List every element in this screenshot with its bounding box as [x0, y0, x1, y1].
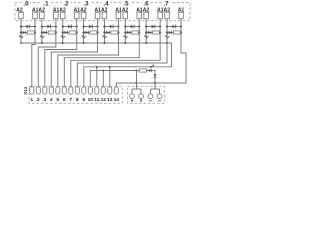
terminal A2 channel 2 [60, 12, 65, 19]
channel 3 A2 rail [83, 19, 85, 43]
power indicator resistor [137, 70, 140, 72]
wire A1 ch6 to pin 7 [71, 19, 160, 87]
drop to pin 11 [96, 67, 98, 87]
connector pin 9 oval [82, 87, 86, 94]
channel 4 diode branch [104, 26, 118, 28]
svg-text:.6: .6 [143, 1, 149, 8]
terminal A2 channel 5 [123, 12, 128, 19]
svg-text:2: 2 [37, 97, 40, 103]
junction bus / A2 ch4 [103, 42, 105, 44]
junction bus / A2 ch1 [41, 42, 43, 44]
channel label .2 [62, 0, 70, 6]
channel 1 diode branch [42, 26, 56, 28]
connector pin 1 oval [30, 87, 34, 94]
terminal A1 channel 2 [74, 12, 79, 19]
channel 4 LED branch [104, 32, 118, 34]
connector pin 2 oval [36, 87, 40, 94]
svg-text:10: 10 [88, 97, 94, 103]
channel 4 A2 rail [103, 19, 105, 43]
connector pin 13 oval [108, 87, 112, 94]
power supply dashed box [128, 86, 165, 103]
junction y83 / left riser [136, 82, 138, 84]
terminal A1 channel 6 [158, 12, 163, 19]
power terminal circle x=132.0 [130, 94, 135, 99]
junction bus / A2 ch3 [83, 42, 85, 44]
channel 5 A2 rail [124, 19, 126, 43]
junction bus / A2 ch2 [62, 42, 64, 44]
wire A1 ch4 to pin 5 [58, 19, 119, 87]
svg-text:.3: .3 [83, 1, 89, 8]
channel 1 A2 rail [41, 19, 43, 43]
svg-text:3: 3 [43, 97, 46, 103]
channel label .4 [102, 0, 110, 6]
channel label .5 [122, 0, 130, 6]
terminal A2 channel 7 [165, 12, 170, 19]
junction bus / A2 ch6 [145, 42, 147, 44]
wire A1 ch7 down right loop to pin 14 [116, 19, 186, 87]
connector pin 11 oval [95, 87, 99, 94]
channel 0 LED branch [21, 32, 35, 34]
junction sub-bus / left riser [136, 70, 138, 72]
terminal A1 channel 0 [33, 12, 38, 19]
svg-text:.0: .0 [23, 1, 29, 8]
left tee riser [136, 71, 138, 90]
wire A1 ch5 to pin 6 [64, 19, 139, 87]
terminal A2 channel 0 [19, 12, 24, 19]
drop to pin 13 [109, 67, 111, 87]
power terminal circle x=141.0 [139, 94, 144, 99]
channel 5 LED branch [125, 32, 139, 34]
connector pin 10 oval [88, 87, 92, 94]
wire A1 ch2 to pin 3 [45, 19, 77, 87]
channel 3 diode branch [84, 26, 98, 28]
connector pin 6 oval [62, 87, 66, 94]
channel label .0 [22, 0, 30, 6]
sub-bus to pins 9,11,13 [84, 67, 172, 87]
channel 7 LED branch [167, 32, 181, 34]
channel label .1 [42, 0, 50, 6]
svg-text:.5: .5 [123, 1, 129, 8]
terminal A2 channel 1 [40, 12, 45, 19]
svg-text:X14: X14 [23, 87, 28, 95]
junction bus / A2 ch5 [124, 42, 126, 44]
svg-text:9: 9 [82, 97, 85, 103]
svg-text:7: 7 [69, 97, 72, 103]
channel 2 A2 rail [62, 19, 64, 43]
wire A1 ch3 to pin 4 [51, 19, 97, 87]
power indicator LED [146, 70, 155, 72]
right tee [154, 83, 156, 89]
power terminal circle x=150.5 [148, 94, 153, 99]
channel 0 diode branch [21, 26, 35, 28]
drop to pin 12 [102, 71, 104, 87]
channel 4 resistor [111, 31, 118, 34]
channel 3 LED branch [84, 32, 98, 34]
power terminal circle x=159.5 [157, 94, 162, 99]
wire A1 ch0 to pin 1 [32, 19, 35, 87]
svg-text:14: 14 [114, 97, 120, 103]
channel 6 resistor [153, 31, 160, 34]
wire A1 ch1 to pin 2 [38, 19, 56, 87]
channel 1 LED branch [42, 32, 56, 34]
svg-text:.1: .1 [43, 1, 49, 8]
channel 2 diode branch [63, 26, 77, 28]
terminal A2 channel 3 [81, 12, 86, 19]
channel 5 diode branch [125, 26, 139, 28]
junction bus / A2 ch7 [166, 42, 168, 44]
junction y83 / right riser [154, 82, 156, 84]
channel 7 diode branch [167, 26, 181, 28]
channel 0 A2 rail [20, 19, 22, 43]
connector pin 7 oval [69, 87, 73, 94]
svg-text:.4: .4 [103, 1, 109, 8]
channel label .7 [162, 0, 170, 6]
svg-text:5: 5 [56, 97, 59, 103]
svg-text:1: 1 [30, 97, 33, 103]
A2 common bus [21, 42, 172, 44]
channel label .6 [142, 0, 150, 6]
channel label .3 [82, 0, 90, 6]
connector X14 dashed box [29, 86, 122, 103]
bus drop on right [171, 43, 173, 67]
svg-text:.7: .7 [163, 1, 169, 8]
terminal A2 channel 6 [144, 12, 149, 19]
terminal A1 channel 3 [95, 12, 100, 19]
connector pin 4 oval [49, 87, 53, 94]
channel 2 resistor [69, 31, 76, 34]
terminal A1 channel 1 [54, 12, 59, 19]
terminal A1 channel 7 [179, 12, 184, 19]
connector pin 8 oval [75, 87, 79, 94]
terminal A2 channel 4 [102, 12, 107, 19]
connector pin 5 oval [56, 87, 60, 94]
svg-text:11: 11 [94, 97, 99, 103]
series diode vertical [154, 71, 156, 84]
terminal A1 channel 4 [116, 12, 121, 19]
sub-bus to pins 10,12 and power branch [90, 71, 136, 87]
connector pin 14 oval [114, 87, 118, 94]
channel 7 resistor [173, 31, 180, 34]
svg-text:13: 13 [107, 97, 113, 103]
svg-text:6: 6 [63, 97, 66, 103]
dashed terminal block outline [15, 3, 190, 21]
channel 6 A2 rail [145, 19, 147, 43]
connector pin 3 oval [43, 87, 47, 94]
terminal A1 channel 5 [137, 12, 142, 19]
channel 1 resistor [48, 31, 55, 34]
wire A2 ch7 drop to pin 8 [77, 43, 167, 87]
channel 2 LED branch [63, 32, 77, 34]
svg-text:8: 8 [76, 97, 79, 103]
connector pin 12 oval [101, 87, 105, 94]
channel 5 resistor [132, 31, 139, 34]
channel 6 LED branch [146, 32, 160, 34]
channel 3 resistor [90, 31, 97, 34]
svg-text:.2: .2 [63, 1, 69, 8]
channel 7 A2 rail [166, 19, 168, 43]
svg-text:12: 12 [101, 97, 107, 103]
channel 6 diode branch [146, 26, 160, 28]
channel 0 resistor [27, 31, 34, 34]
svg-text:4: 4 [50, 97, 53, 103]
